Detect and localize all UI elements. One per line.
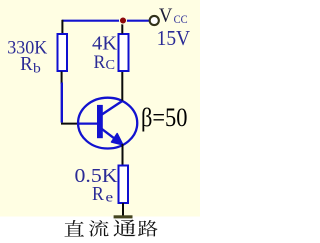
svg-text:β=50: β=50 (141, 103, 188, 132)
wire: vertical stub from rail to Rb top (61, 20, 63, 34)
wire: emitter vertical from circle to Re (122, 144, 124, 165)
junction node dot on Vcc rail (119, 17, 126, 24)
resistor Rb (330K) body (58, 34, 68, 71)
canvas background (0, 0, 200, 238)
Vcc terminal open circle (150, 16, 159, 25)
svg-text:CC: CC (174, 12, 188, 26)
wire: stub from rail to RC top (121, 21, 123, 33)
ground bar (114, 215, 133, 218)
svg-text:b: b (33, 62, 41, 77)
transistor Q1 emitter arrowhead (112, 134, 123, 145)
transistor Q1 circle (78, 98, 137, 149)
resistor Re (0.5K) body (119, 166, 129, 204)
svg-text:R: R (94, 52, 106, 73)
transistor Q1 collector lead diagonal (100, 101, 123, 116)
svg-text:R: R (20, 53, 33, 75)
svg-text:V: V (159, 4, 173, 26)
svg-text:R: R (92, 184, 105, 205)
wire: base lead inside circle (blue) (78, 122, 97, 124)
wire: collector vertical from RC to circle (121, 72, 123, 101)
wire: black stub below Rb (61, 72, 63, 85)
caption character 流 (89, 220, 109, 237)
caption character 通 (113, 219, 135, 236)
caption character 路 (138, 220, 158, 236)
svg-text:e: e (106, 189, 114, 204)
wire: base lead horizontal (black) (61, 123, 80, 125)
transistor Q1 emitter lead diagonal (100, 128, 118, 141)
wire: vertical from Re to ground (122, 203, 124, 216)
svg-text:15V: 15V (157, 26, 191, 50)
resistor RC (4K) body (119, 34, 129, 71)
transistor Q1 base bar (97, 105, 103, 138)
wire: blue vertical down the left side (61, 83, 63, 123)
svg-text:C: C (106, 57, 116, 72)
wire: top horizontal rail (62, 20, 150, 22)
caption character 直 (64, 220, 83, 236)
